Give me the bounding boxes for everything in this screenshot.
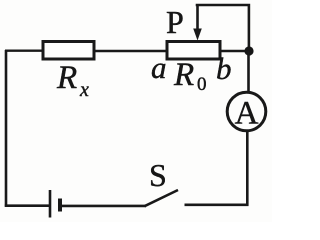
svg-text:R: R <box>173 57 194 93</box>
ammeter A <box>227 92 266 131</box>
resistor Rx <box>43 42 94 60</box>
node junction dot <box>244 46 253 55</box>
battery short plate <box>58 199 62 212</box>
wire junction down to ammeter <box>247 51 250 93</box>
wire bottom left segment <box>5 204 49 207</box>
battery long plate <box>49 190 52 218</box>
wire slider top loop <box>196 5 249 48</box>
wire ammeter down to corner <box>246 131 249 206</box>
svg-text:b: b <box>216 51 232 86</box>
wire left vertical <box>5 50 8 207</box>
svg-text:0: 0 <box>197 74 207 95</box>
slider arrow P <box>196 5 199 31</box>
rheostat R0 <box>167 42 220 60</box>
svg-text:A: A <box>235 96 259 132</box>
switch S <box>145 190 179 206</box>
svg-text:S: S <box>149 157 167 193</box>
svg-text:a: a <box>151 50 167 85</box>
svg-text:R: R <box>56 60 77 96</box>
wire R0 to junction <box>220 50 249 52</box>
wire between Rx and R0 <box>94 50 167 52</box>
svg-text:P: P <box>166 4 184 40</box>
wire top-left horizontal <box>5 50 43 52</box>
wire battery to switch pivot <box>61 205 146 208</box>
svg-text:x: x <box>79 79 89 101</box>
wire bottom right segment <box>185 204 249 207</box>
